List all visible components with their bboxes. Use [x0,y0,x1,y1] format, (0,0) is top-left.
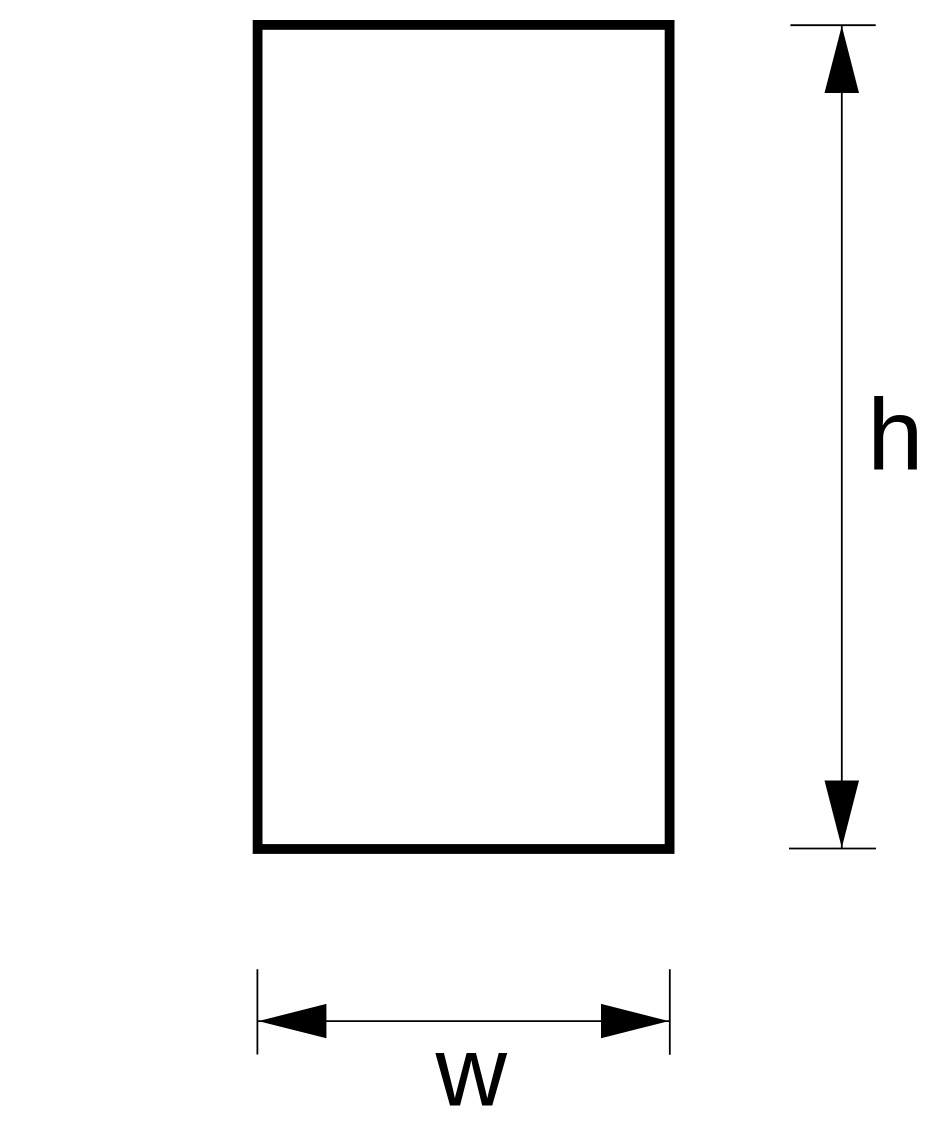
h dimension bottom arrowhead [825,781,860,848]
w dimension right arrowhead [601,1004,669,1038]
w dimension line [258,1020,670,1022]
h dimension bottom extension tick [789,848,876,850]
svg-text:h: h [867,379,923,491]
w dimension left extension tick [256,969,258,1054]
w dimension right extension tick [669,969,671,1054]
h dimension line [841,25,843,848]
h dimension top extension tick [790,24,875,26]
svg-text:w: w [434,1015,507,1126]
h dimension top arrowhead [825,26,860,93]
rectangle body [258,25,670,849]
w dimension left arrowhead [258,1004,326,1038]
